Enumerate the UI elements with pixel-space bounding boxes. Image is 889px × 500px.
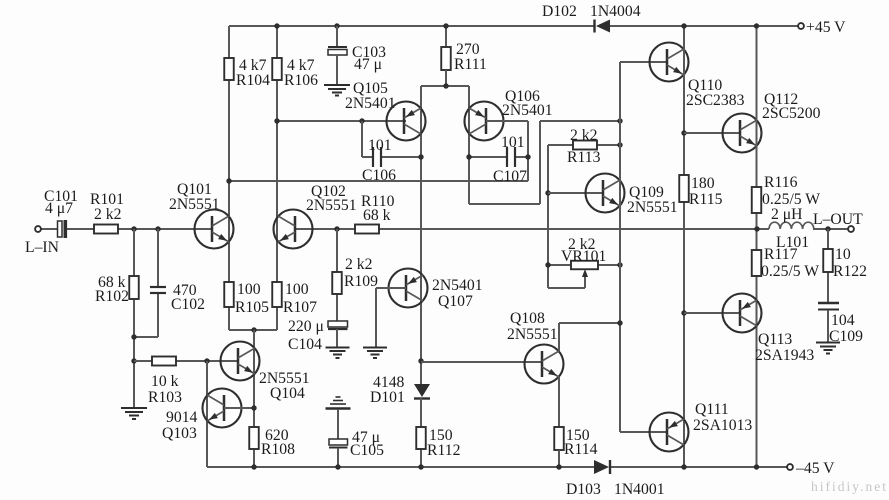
node C103 top xyxy=(334,23,339,28)
node Q108 base tap xyxy=(418,358,423,363)
node VR101 right junction xyxy=(617,262,622,267)
resistor R113 xyxy=(548,144,573,146)
diode D102 xyxy=(596,20,610,33)
svg-text:47 μ: 47 μ xyxy=(354,56,382,73)
capacitor C102 xyxy=(150,286,166,288)
resistor R107 xyxy=(272,282,282,307)
svg-text:9014: 9014 xyxy=(166,409,198,426)
svg-text:Q104: Q104 xyxy=(270,385,305,402)
svg-text:2N5551: 2N5551 xyxy=(507,326,558,343)
wire VAS box route xyxy=(469,203,540,205)
svg-text:R117: R117 xyxy=(764,246,798,263)
wire Q111 base lead xyxy=(620,431,667,433)
wire tail to Q104 xyxy=(253,330,255,467)
node +45 terminal xyxy=(798,23,804,29)
svg-text:Q108: Q108 xyxy=(510,310,545,327)
svg-text:2 k2: 2 k2 xyxy=(570,127,597,144)
wire Q113 base lead xyxy=(684,312,740,314)
resistor R122 xyxy=(823,249,833,272)
svg-text:4 μ7: 4 μ7 xyxy=(45,200,73,217)
svg-text:Q113: Q113 xyxy=(758,331,792,348)
node Q109 base junction xyxy=(545,190,550,195)
svg-text:R105: R105 xyxy=(235,299,269,316)
node C102/R102 junction xyxy=(131,334,136,339)
svg-text:2N5401: 2N5401 xyxy=(432,277,483,294)
resistor R110 xyxy=(355,225,379,234)
svg-text:220 μ: 220 μ xyxy=(288,318,324,335)
capacitor C107 xyxy=(469,156,507,158)
ground C109 xyxy=(816,342,840,344)
node Q108 collector junction xyxy=(617,320,622,325)
node C106 tap xyxy=(359,118,364,123)
transistor Q101 xyxy=(195,210,234,249)
svg-text:C104: C104 xyxy=(288,336,322,353)
transistor Q105 xyxy=(387,102,426,141)
wire VR101 wiper jumper xyxy=(548,287,585,289)
resistor R117 xyxy=(752,250,762,276)
capacitor C109 xyxy=(818,302,839,305)
node tail junction xyxy=(251,327,256,332)
wire mid rail R101 to Q101 base xyxy=(118,228,212,230)
svg-text:2N5551: 2N5551 xyxy=(306,197,357,214)
ground C103 xyxy=(324,84,350,86)
wire Q102 base to R110 xyxy=(295,228,355,230)
node C107 right junction xyxy=(525,154,530,159)
wire R102 column xyxy=(133,229,135,408)
svg-text:D103: D103 xyxy=(566,481,601,498)
node R114 bottom xyxy=(556,464,561,469)
svg-text:2SA1013: 2SA1013 xyxy=(693,417,752,434)
svg-text:Q111: Q111 xyxy=(695,401,729,418)
svg-text:R112: R112 xyxy=(427,442,460,459)
resistor R103 xyxy=(152,357,176,366)
wire Q110 base lead xyxy=(620,61,667,63)
node R103 left junction xyxy=(131,358,136,363)
wire Q103 column xyxy=(206,361,208,467)
svg-text:2N5551: 2N5551 xyxy=(627,199,678,216)
capacitor C105 xyxy=(336,396,341,398)
transistor Q104 xyxy=(221,342,260,381)
node L-IN terminal xyxy=(35,226,41,232)
wire Q103 base lead xyxy=(224,407,254,409)
node R106/base junction xyxy=(274,118,279,123)
node R106 top xyxy=(274,23,279,28)
transistor Q110 xyxy=(650,43,689,82)
node feedback junction R110/R109 xyxy=(334,226,339,231)
svg-text:R116: R116 xyxy=(764,174,798,191)
resistor R108 xyxy=(249,427,259,449)
svg-text:L–OUT: L–OUT xyxy=(813,211,863,228)
node input junction R102 xyxy=(131,226,136,231)
wire top +45V rail right segment xyxy=(610,25,798,27)
node -45 terminal xyxy=(787,464,793,470)
svg-text:2N5401: 2N5401 xyxy=(345,95,396,112)
node R112 bottom xyxy=(418,464,423,469)
node Q112 collector top xyxy=(754,23,759,28)
node L101 right junction xyxy=(825,226,830,231)
svg-text:R113: R113 xyxy=(567,149,601,166)
svg-text:2SC5200: 2SC5200 xyxy=(762,105,821,122)
svg-text:10 k: 10 k xyxy=(151,373,179,390)
node C105 bottom xyxy=(335,464,340,469)
capacitor C104 xyxy=(328,321,348,327)
wire Q108 collector route xyxy=(558,323,560,351)
svg-text:104: 104 xyxy=(831,312,855,329)
resistor R101 xyxy=(94,225,118,234)
resistor R112 xyxy=(416,427,426,449)
capacitor C103 xyxy=(336,26,338,47)
wire R122 column xyxy=(827,229,829,303)
svg-text:2SC2383: 2SC2383 xyxy=(686,92,745,109)
svg-text:68 k: 68 k xyxy=(363,207,391,224)
svg-text:D102: D102 xyxy=(542,3,577,20)
wire Q105 column xyxy=(420,86,422,384)
resistor R116 xyxy=(752,187,762,213)
svg-text:R122: R122 xyxy=(833,263,867,280)
wire bias column left xyxy=(547,145,549,288)
ground Q107 base xyxy=(363,347,387,349)
wire Q106 column xyxy=(468,86,470,204)
wire Q108 emitter to R114 xyxy=(558,377,560,427)
node C106 right junction xyxy=(418,154,423,159)
svg-text:R114: R114 xyxy=(564,441,598,458)
wire R106 column xyxy=(276,26,278,330)
resistor R115 xyxy=(679,175,689,202)
node L-OUT terminal xyxy=(848,226,854,232)
wire Q107 base to ground xyxy=(376,287,406,289)
svg-text:R106: R106 xyxy=(284,72,318,89)
wire bottom -45V rail right segment xyxy=(610,466,787,468)
svg-text:0.25/5 W: 0.25/5 W xyxy=(761,263,819,280)
capacitor C106 xyxy=(361,121,363,157)
svg-text:2 k2: 2 k2 xyxy=(94,206,121,223)
node R111 top xyxy=(443,23,448,28)
node Q104 emitter / R108 / Q103 base junction xyxy=(251,405,256,410)
svg-text:2SA1943: 2SA1943 xyxy=(755,347,814,364)
svg-text:Q103: Q103 xyxy=(162,425,197,442)
svg-text:hifidiy.net: hifidiy.net xyxy=(811,479,888,494)
ground input xyxy=(121,407,147,409)
wire Q112 base lead xyxy=(684,132,740,134)
wire L101 to output terminal xyxy=(813,228,848,230)
potentiometer VR101 xyxy=(548,264,571,266)
wire mid signal rail input to R101 xyxy=(41,228,57,230)
wire R110 to output node xyxy=(379,228,757,230)
svg-text:R103: R103 xyxy=(148,389,182,406)
resistor R109 xyxy=(332,272,342,294)
wire C102 branch xyxy=(157,229,159,287)
inductor L101 xyxy=(769,222,814,229)
transistor Q112 xyxy=(723,114,762,153)
svg-text:101: 101 xyxy=(501,134,525,151)
resistor R104 xyxy=(224,58,234,80)
transistor Q102 xyxy=(274,210,313,249)
node Q101 collector junction xyxy=(226,178,231,183)
node input junction C102 xyxy=(155,226,160,231)
wire emitter join xyxy=(229,329,277,331)
svg-text:R109: R109 xyxy=(344,273,378,290)
transistor Q113 xyxy=(723,294,762,333)
node VR101 left junction xyxy=(545,262,550,267)
wire Q109 base lead xyxy=(548,192,603,194)
svg-text:L–IN: L–IN xyxy=(25,239,59,256)
transistor Q103 xyxy=(203,389,242,428)
wire Q106 base lead xyxy=(486,120,528,122)
transistor Q109 xyxy=(586,174,625,213)
node Q111 collector bottom xyxy=(681,464,686,469)
node Q112 base junction xyxy=(681,130,686,135)
svg-text:C107: C107 xyxy=(493,168,527,185)
svg-text:180: 180 xyxy=(691,175,715,192)
svg-text:C105: C105 xyxy=(350,442,384,459)
node C107 left junction xyxy=(466,154,471,159)
resistor R105 xyxy=(224,282,234,307)
svg-text:R107: R107 xyxy=(283,299,317,316)
capacitor C101 xyxy=(58,221,63,237)
wire top +45V rail left segment xyxy=(229,25,595,27)
svg-text:1N4001: 1N4001 xyxy=(614,481,665,498)
transistor Q108 xyxy=(525,345,564,384)
svg-text:R115: R115 xyxy=(689,191,723,208)
svg-text:2 μH: 2 μH xyxy=(771,206,803,223)
svg-text:VR101: VR101 xyxy=(561,248,606,265)
wire R109 column xyxy=(336,229,338,321)
node output junction xyxy=(754,226,759,231)
wire Q101 collector line y181 xyxy=(229,180,528,182)
svg-text:+45 V: +45 V xyxy=(806,19,846,36)
resistor R102 xyxy=(129,276,139,299)
node R113 right junction xyxy=(617,142,622,147)
wire R115 column xyxy=(683,26,685,466)
svg-text:D101: D101 xyxy=(370,389,405,406)
wire C107 right column xyxy=(527,121,529,181)
svg-text:101: 101 xyxy=(368,137,392,154)
transistor Q107 xyxy=(389,269,428,308)
node R103/Q104 base junction xyxy=(204,358,209,363)
svg-text:C102: C102 xyxy=(171,296,205,313)
wire R104 column xyxy=(228,26,230,330)
svg-text:C106: C106 xyxy=(362,167,396,184)
diode D101 xyxy=(414,384,430,397)
svg-text:10: 10 xyxy=(835,246,851,263)
wire output node to L101 xyxy=(757,228,769,230)
resistor R106 xyxy=(272,58,282,80)
node Q113 base junction xyxy=(681,310,686,315)
svg-text:1N4004: 1N4004 xyxy=(590,3,641,20)
node R108 bottom xyxy=(251,464,256,469)
node VAS to bias junction xyxy=(617,118,622,123)
svg-text:2N5551: 2N5551 xyxy=(169,196,220,213)
wire bias column right x620 xyxy=(619,62,621,432)
wire Q105 base line xyxy=(277,120,406,122)
ground C104 xyxy=(326,347,350,349)
svg-text:100: 100 xyxy=(285,281,309,298)
svg-text:2 k2: 2 k2 xyxy=(345,256,372,273)
wire R111 emitter bridge xyxy=(421,85,469,87)
resistor R111 xyxy=(445,26,447,47)
wire R116 column xyxy=(756,26,758,466)
resistor R114 xyxy=(554,427,564,450)
svg-text:Q107: Q107 xyxy=(438,293,473,310)
diode D103 xyxy=(594,460,609,474)
wire R103 line xyxy=(134,360,238,362)
svg-text:R108: R108 xyxy=(261,441,295,458)
node Q110 collector top xyxy=(681,23,686,28)
transistor Q106 xyxy=(465,102,504,141)
node bridge center xyxy=(443,83,448,88)
wire Q108 base lead xyxy=(421,361,542,363)
node Q113 collector bottom xyxy=(754,464,759,469)
svg-text:R104: R104 xyxy=(236,72,270,89)
svg-text:R111: R111 xyxy=(454,56,487,73)
svg-text:–45 V: –45 V xyxy=(795,460,835,477)
svg-text:R102: R102 xyxy=(95,288,129,305)
svg-text:2N5401: 2N5401 xyxy=(502,102,553,119)
transistor Q111 xyxy=(650,413,689,452)
wire bottom -45V rail left segment xyxy=(207,466,594,468)
svg-text:100: 100 xyxy=(237,281,261,298)
